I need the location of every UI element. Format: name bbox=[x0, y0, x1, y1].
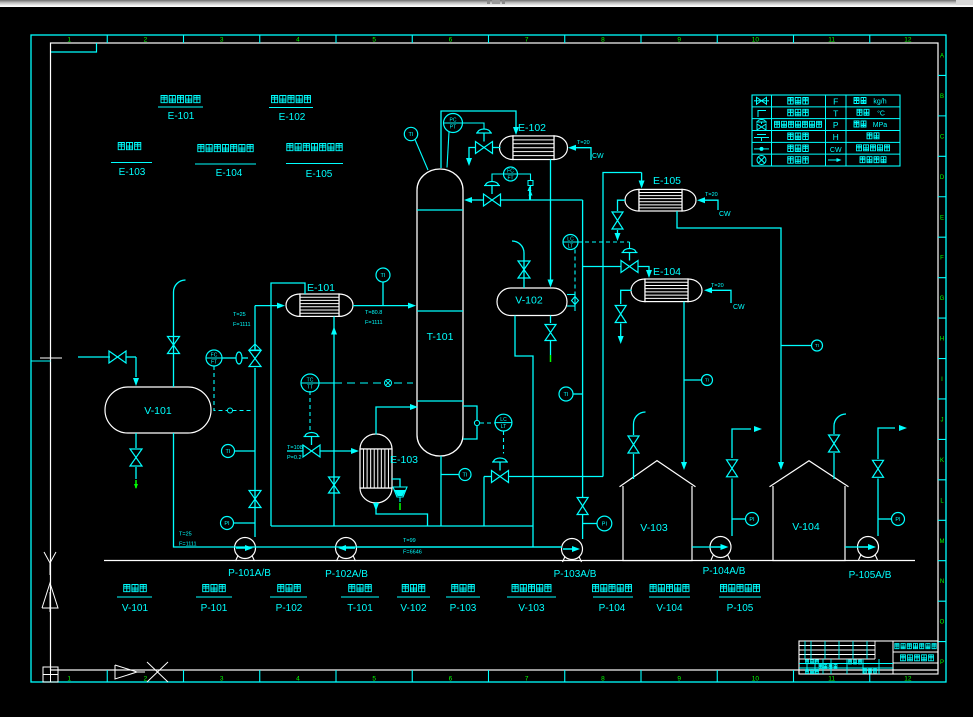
bottoms riser from header bbox=[483, 477, 485, 527]
legend chinese column bbox=[788, 98, 809, 105]
svg-text:E-104: E-104 bbox=[216, 168, 243, 179]
svg-text:TC: TC bbox=[307, 378, 314, 384]
legend symbol valve bbox=[757, 97, 762, 104]
svg-text:T=108: T=108 bbox=[287, 445, 303, 451]
svg-text:F=1111: F=1111 bbox=[179, 542, 197, 548]
corner grid box bbox=[43, 667, 58, 682]
svg-text:TI: TI bbox=[815, 343, 819, 348]
legend symbol level bbox=[754, 137, 769, 139]
svg-text:FT: FT bbox=[211, 360, 217, 366]
svg-text:2: 2 bbox=[144, 37, 148, 44]
svg-text:O: O bbox=[940, 620, 945, 626]
svg-text:F=1111: F=1111 bbox=[233, 322, 251, 328]
svg-text:TI: TI bbox=[564, 392, 569, 398]
feed to E-101 bbox=[255, 305, 277, 307]
V-102 level gauge bbox=[567, 294, 575, 296]
svg-text:TI: TI bbox=[705, 378, 709, 383]
svg-text:V-104: V-104 bbox=[656, 603, 683, 614]
bottoms riser to E-105 bbox=[603, 173, 642, 477]
svg-text:8: 8 bbox=[601, 676, 605, 683]
E-104 bottoms to V-103 bbox=[683, 302, 685, 462]
P-105 discharge valve bbox=[873, 460, 884, 469]
label E-103 name bbox=[118, 143, 141, 150]
svg-text:G: G bbox=[940, 296, 945, 302]
bench mark triangle symbol bbox=[42, 583, 58, 608]
svg-text:T-101: T-101 bbox=[427, 331, 454, 343]
svg-text:F: F bbox=[833, 97, 838, 107]
svg-text:LC: LC bbox=[500, 417, 507, 423]
svg-text:T: T bbox=[833, 108, 838, 118]
svg-text:N: N bbox=[940, 579, 944, 585]
svg-text:C: C bbox=[940, 134, 945, 140]
svg-text:TI: TI bbox=[463, 472, 468, 478]
V-101 outlet to P-101 bbox=[174, 433, 237, 547]
svg-text:7: 7 bbox=[525, 676, 529, 683]
svg-text:P-102A/B: P-102A/B bbox=[325, 569, 368, 580]
E-104 CW inlet bbox=[704, 287, 712, 293]
pump P-105 bbox=[859, 555, 862, 561]
distillate line bbox=[583, 266, 621, 268]
instrument FC reflux bbox=[504, 167, 518, 181]
svg-text:3: 3 bbox=[220, 37, 224, 44]
svg-text:8: 8 bbox=[601, 37, 605, 44]
svg-text:11: 11 bbox=[828, 676, 835, 683]
V-103 outlet to P-104 bbox=[692, 546, 712, 548]
svg-text:T=20: T=20 bbox=[577, 140, 590, 146]
FC actuator ellipse bbox=[236, 352, 242, 364]
exchanger E-101 bbox=[286, 294, 300, 316]
LC signal to distillate valve bbox=[578, 241, 630, 243]
TC control valve to E-103 bbox=[287, 450, 303, 452]
instrument PI P-105 bbox=[892, 513, 905, 526]
border column ticks bbox=[107, 35, 870, 682]
svg-text:J: J bbox=[941, 417, 944, 423]
border row ticks and letters bbox=[938, 75, 946, 641]
svg-text:D: D bbox=[940, 175, 945, 181]
E-103 bottoms out bbox=[376, 502, 428, 526]
instrument TI E-101 outlet bbox=[376, 268, 390, 282]
exchanger E-103 bbox=[360, 434, 392, 449]
svg-text:12: 12 bbox=[904, 676, 912, 683]
svg-text:7: 7 bbox=[525, 37, 529, 44]
svg-text:P=0.2: P=0.2 bbox=[287, 455, 302, 461]
svg-text:K: K bbox=[940, 458, 944, 464]
PC control valve E-102 bbox=[478, 129, 491, 133]
svg-text:E-105: E-105 bbox=[306, 169, 333, 180]
svg-text:1: 1 bbox=[67, 37, 71, 44]
svg-text:V-102: V-102 bbox=[400, 603, 427, 614]
svg-text:V-102: V-102 bbox=[515, 295, 543, 307]
svg-text:P-104A/B: P-104A/B bbox=[703, 566, 746, 577]
svg-text:E-104: E-104 bbox=[653, 266, 681, 278]
svg-text:3: 3 bbox=[220, 676, 224, 683]
pump alley suction line bbox=[236, 546, 562, 548]
svg-text:P-105A/B: P-105A/B bbox=[849, 570, 892, 581]
svg-text:6: 6 bbox=[449, 37, 453, 44]
svg-text:B: B bbox=[940, 94, 944, 100]
svg-text:MPa: MPa bbox=[873, 122, 888, 129]
instrument TI E-105 bottoms bbox=[812, 340, 823, 351]
svg-text:E: E bbox=[940, 215, 944, 221]
feed line to V-101 bbox=[135, 357, 137, 377]
svg-text:6: 6 bbox=[449, 676, 453, 683]
svg-text:LT: LT bbox=[501, 424, 506, 430]
svg-text:PI: PI bbox=[224, 521, 230, 527]
FC control valve on feed bbox=[249, 351, 261, 359]
P-101 discharge riser bbox=[254, 368, 256, 537]
drum V-102 bbox=[497, 288, 567, 316]
corner X glyph bbox=[147, 662, 168, 682]
V-102 vent valve bbox=[518, 261, 530, 270]
svg-text:P-103: P-103 bbox=[450, 603, 477, 614]
corner arrow glyph bbox=[115, 665, 137, 679]
svg-text:V-103: V-103 bbox=[518, 603, 545, 614]
grade line bbox=[104, 560, 915, 562]
overhead vapor line bbox=[441, 111, 516, 168]
svg-text:P-105: P-105 bbox=[727, 603, 754, 614]
exchanger E-102 bbox=[500, 136, 514, 160]
svg-text:FC: FC bbox=[211, 353, 218, 359]
reflux line to column bbox=[501, 199, 583, 201]
svg-text:F=6646: F=6646 bbox=[403, 550, 422, 556]
bottoms product line to riser bbox=[509, 476, 604, 478]
valve to E-102 cap bbox=[493, 147, 501, 149]
E-101 outlet to T-101 bbox=[353, 305, 408, 307]
reflux control valve bbox=[484, 194, 493, 206]
E-105 outlet valve bbox=[612, 212, 623, 221]
T-101 sump level box bbox=[463, 406, 477, 439]
left border mid tick bbox=[31, 360, 51, 362]
svg-text:T=20: T=20 bbox=[711, 283, 724, 289]
P-102 bottoms line bbox=[357, 546, 562, 548]
V-104 outlet to P-105 bbox=[845, 546, 859, 548]
svg-text:TI: TI bbox=[381, 273, 386, 279]
legend symbol vent bbox=[758, 111, 766, 118]
svg-text:10: 10 bbox=[752, 676, 760, 683]
E-102 condensate to V-102 bbox=[550, 160, 552, 281]
pump P-102 bbox=[337, 556, 340, 562]
label E-105 name bbox=[287, 144, 342, 151]
svg-text:H: H bbox=[833, 132, 839, 142]
svg-text:T=25: T=25 bbox=[233, 312, 246, 318]
svg-text:M: M bbox=[940, 539, 945, 545]
legend units column bbox=[854, 98, 866, 104]
svg-text:E-105: E-105 bbox=[653, 175, 681, 187]
E-101 shell bottom line bbox=[333, 317, 335, 527]
exchanger E-104 bbox=[631, 279, 645, 302]
V-102 outlet to P-103 bbox=[515, 316, 533, 548]
window scrollbar sliver bbox=[0, 0, 973, 7]
tank V-104 bbox=[770, 461, 849, 561]
label E-102 name bbox=[272, 96, 311, 103]
instrument LC V-102 bbox=[563, 235, 578, 250]
svg-text:PI: PI bbox=[749, 517, 755, 523]
svg-text:1: 1 bbox=[67, 676, 71, 683]
instrument LC T-101 bbox=[495, 414, 512, 431]
FC signal dashed bbox=[214, 366, 252, 411]
instrument TI column top bbox=[404, 127, 417, 140]
tank V-103 bbox=[620, 461, 696, 561]
instrument TC E-103 bbox=[301, 374, 319, 392]
instrument PI P-103 bbox=[597, 516, 612, 531]
svg-text:PI: PI bbox=[895, 517, 901, 523]
feed inlet valve bbox=[109, 351, 118, 363]
svg-text:kg/h: kg/h bbox=[873, 99, 886, 106]
svg-text:E-101: E-101 bbox=[307, 282, 335, 294]
bottom equipment name table bbox=[124, 585, 147, 592]
svg-text:LT: LT bbox=[568, 244, 573, 250]
svg-text:TI: TI bbox=[409, 132, 414, 138]
vessel V-101 bbox=[105, 387, 211, 433]
svg-text:CW: CW bbox=[733, 304, 745, 311]
svg-text:P-101: P-101 bbox=[201, 603, 228, 614]
E-104 outlet valve bbox=[615, 306, 626, 315]
svg-text:PT: PT bbox=[450, 125, 456, 131]
instrument PC column top bbox=[444, 114, 463, 133]
instrument TI pump discharge bbox=[222, 445, 235, 458]
V-101 drain green arrow bbox=[135, 480, 137, 488]
svg-text:FT: FT bbox=[507, 176, 513, 182]
svg-text:P-103A/B: P-103A/B bbox=[554, 569, 597, 580]
border fold mark bbox=[51, 43, 97, 52]
T-101 bottoms to header bbox=[440, 456, 442, 526]
svg-text:A: A bbox=[940, 54, 944, 60]
E-101 bottoms valve bbox=[329, 477, 340, 485]
svg-text:P: P bbox=[833, 120, 839, 130]
instrument PI pump discharge bbox=[221, 517, 234, 530]
instrument FC feed bbox=[206, 350, 222, 366]
LC T-101 dashed link bbox=[480, 422, 495, 424]
feed inlet line bbox=[78, 356, 110, 358]
svg-text:FC: FC bbox=[507, 169, 514, 175]
svg-text:E-103: E-103 bbox=[119, 167, 146, 178]
E-101 shell top loop bbox=[271, 283, 305, 526]
svg-text:9: 9 bbox=[677, 37, 681, 44]
svg-text:P: P bbox=[940, 660, 944, 666]
LC bottoms control valve bbox=[494, 458, 507, 462]
svg-text:V-104: V-104 bbox=[792, 521, 820, 533]
funnel green mark bbox=[399, 503, 401, 510]
E-103 funnel drain bbox=[392, 479, 400, 487]
PC to valve signal bbox=[463, 123, 485, 129]
TC dashed to column bbox=[319, 382, 334, 384]
label E-104 name bbox=[198, 145, 253, 152]
svg-text:E-102: E-102 bbox=[279, 112, 306, 123]
instrument TI reflux bbox=[559, 387, 573, 401]
svg-text:P-101A/B: P-101A/B bbox=[228, 568, 271, 579]
svg-text:5: 5 bbox=[372, 37, 376, 44]
svg-text:12: 12 bbox=[904, 37, 912, 44]
V-101 drain bbox=[135, 433, 137, 448]
E-102 CW inlet bbox=[568, 145, 576, 151]
svg-text:CW: CW bbox=[592, 153, 604, 160]
E-105 bottoms to V-104 bbox=[677, 211, 781, 462]
P-101 discharge valve bbox=[249, 491, 261, 500]
reflux FC tap bbox=[529, 189, 531, 200]
P-104 discharge valve bbox=[727, 460, 738, 469]
svg-text:E-103: E-103 bbox=[390, 454, 418, 466]
legend symbol sample bbox=[754, 148, 769, 150]
svg-text:F=1111: F=1111 bbox=[365, 320, 383, 326]
svg-text:PC: PC bbox=[450, 118, 457, 124]
legend symbol pump circle bbox=[757, 156, 766, 165]
svg-text:CW: CW bbox=[719, 211, 731, 218]
P-103 discharge riser bbox=[582, 515, 584, 539]
V-101 vent riser bbox=[173, 292, 175, 387]
svg-text:E-101: E-101 bbox=[168, 111, 195, 122]
svg-text:LC: LC bbox=[567, 237, 574, 243]
P-105 discharge riser bbox=[877, 479, 879, 537]
svg-text:T=80.8: T=80.8 bbox=[365, 310, 382, 316]
label E-101 name bbox=[161, 96, 200, 103]
exchanger E-105 bbox=[625, 189, 639, 211]
svg-text:F: F bbox=[940, 256, 944, 262]
svg-text:°C: °C bbox=[877, 110, 885, 118]
pump P-103 bbox=[563, 557, 566, 563]
E-102 valve vent leg bbox=[469, 148, 476, 159]
svg-text:E-102: E-102 bbox=[518, 122, 546, 134]
E-105 outlet left bbox=[618, 200, 626, 211]
V-102 bottom drain bbox=[550, 316, 552, 324]
pump P-101 bbox=[236, 556, 239, 562]
svg-text:4: 4 bbox=[296, 37, 300, 44]
column T-101 bbox=[417, 169, 463, 456]
legend symbol control valve bbox=[757, 124, 762, 130]
svg-text:P-104: P-104 bbox=[599, 603, 626, 614]
instrument TI T-101 bottoms bbox=[459, 469, 471, 481]
V-101 vent valve bbox=[168, 337, 180, 346]
svg-text:T=99: T=99 bbox=[403, 538, 416, 544]
P-104 discharge riser bbox=[731, 479, 733, 537]
instrument TI E-104 bottoms bbox=[702, 375, 713, 386]
LC distillate control valve bbox=[621, 261, 630, 273]
svg-text:T=25: T=25 bbox=[179, 532, 192, 538]
svg-text:CW: CW bbox=[830, 147, 842, 154]
svg-text:TT: TT bbox=[307, 385, 313, 391]
distillate to E-104 bbox=[638, 267, 649, 271]
E-105 inlet arrow bbox=[641, 173, 643, 182]
svg-text:5: 5 bbox=[372, 676, 376, 683]
V-103 vent bbox=[633, 424, 635, 435]
svg-text:V-101: V-101 bbox=[122, 603, 149, 614]
svg-text:10: 10 bbox=[752, 37, 760, 44]
title block bbox=[799, 641, 938, 674]
svg-text:TI: TI bbox=[226, 449, 231, 455]
bench mark Y symbol bbox=[44, 552, 56, 563]
svg-text:11: 11 bbox=[828, 37, 835, 44]
svg-text:9: 9 bbox=[677, 676, 681, 683]
svg-text:T-101: T-101 bbox=[347, 603, 373, 614]
svg-text:P-102: P-102 bbox=[276, 603, 303, 614]
bottoms header bbox=[271, 525, 533, 527]
legend table bbox=[752, 95, 900, 166]
E-104 outlet left bbox=[621, 290, 632, 304]
svg-text:V-103: V-103 bbox=[640, 522, 668, 534]
svg-text:H: H bbox=[940, 337, 944, 343]
instrument PI P-104 bbox=[746, 513, 759, 526]
V-102 vent swan neck bbox=[523, 253, 525, 288]
svg-text:4: 4 bbox=[296, 676, 300, 683]
E-103 vapor return to column bbox=[376, 407, 410, 435]
E-105 CW inlet bbox=[697, 197, 705, 203]
svg-text:V-101: V-101 bbox=[144, 405, 172, 417]
V-104 vent bbox=[833, 426, 835, 434]
P-103 discharge valve bbox=[577, 498, 588, 507]
svg-text:PI: PI bbox=[602, 521, 608, 527]
inner border frame bbox=[51, 43, 939, 670]
svg-text:T=20: T=20 bbox=[705, 192, 718, 198]
pump P-104 bbox=[711, 555, 714, 561]
